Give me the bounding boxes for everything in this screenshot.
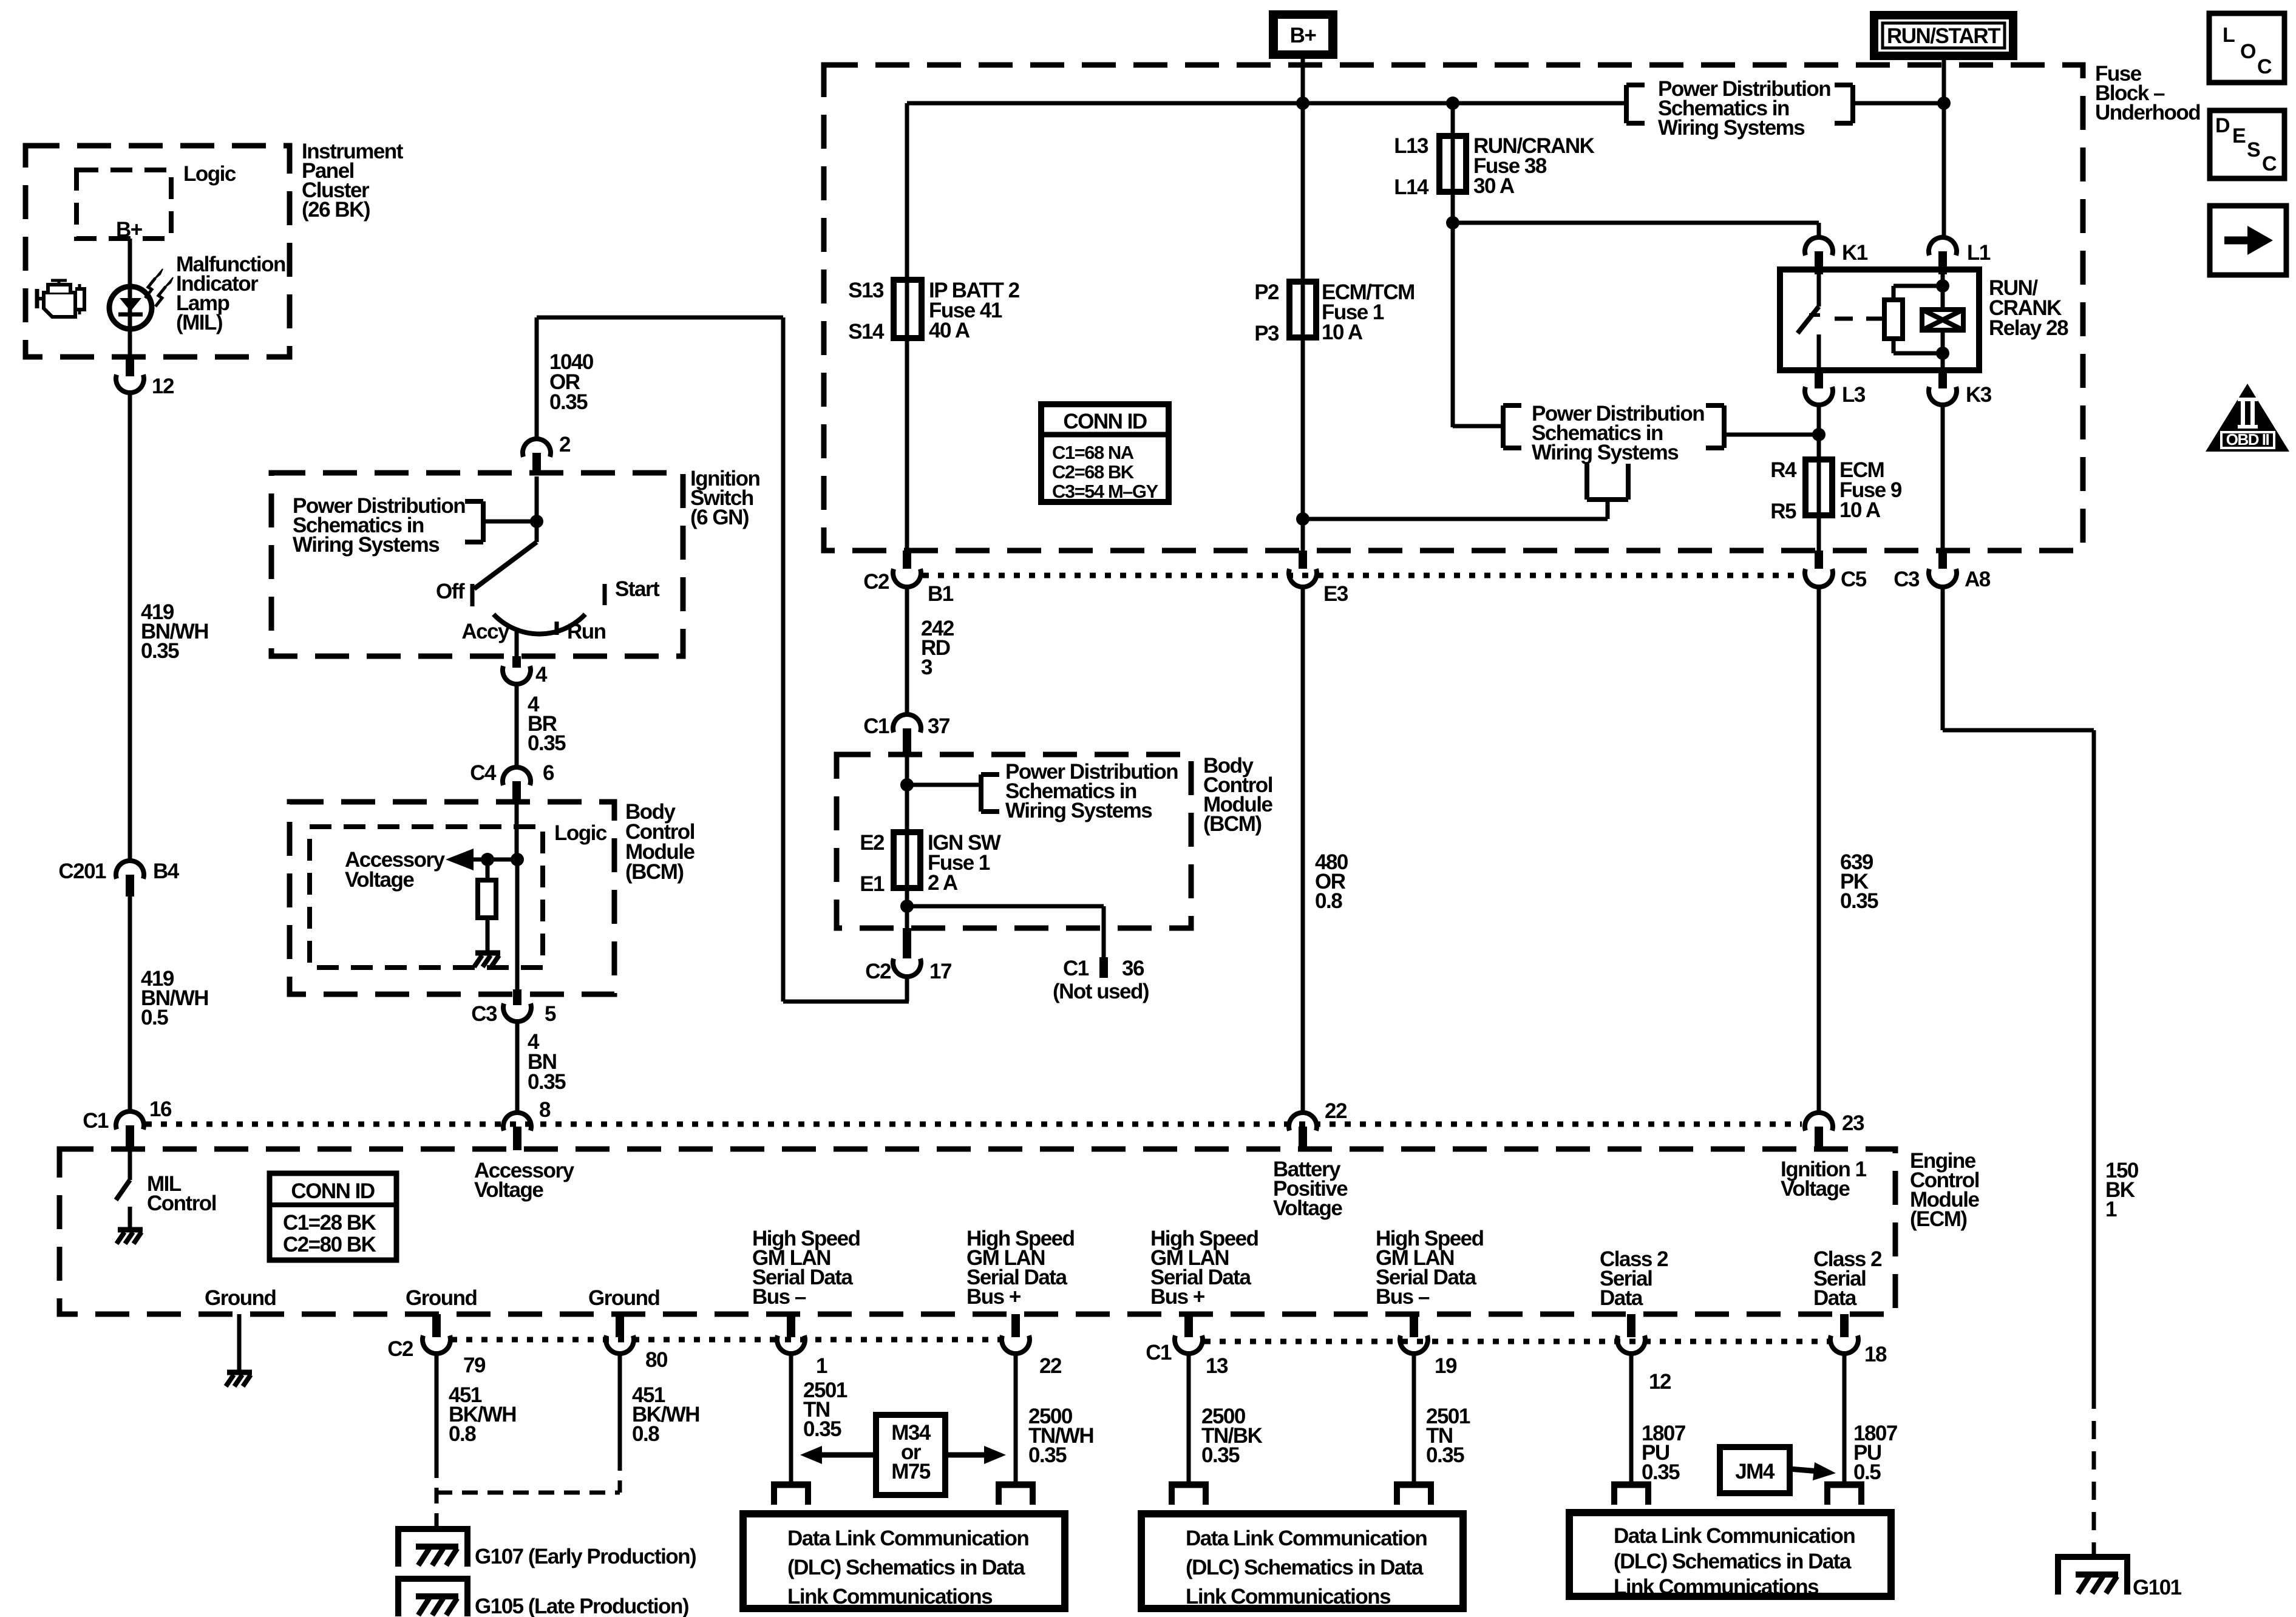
svg-text:B+: B+ [1290,24,1317,47]
svg-text:1: 1 [2105,1198,2117,1221]
wire L3 to fuse 9 [1817,404,1821,554]
svg-text:Accy: Accy [461,620,510,643]
connector pin 12 (Class 2) [1617,1314,1671,1394]
symbol LOC box [2209,13,2284,83]
wire pin 6 into BCM [515,802,519,859]
data link communication box 2 [1141,1514,1463,1609]
svg-text:12: 12 [152,375,174,398]
svg-text:C: C [2257,55,2272,78]
fuse 38 RUN/CRANK 30A [1394,134,1594,199]
wire B+ feed [1301,59,1305,103]
wire bracket to RUN/START feed [1853,101,1944,106]
svg-text:(DLC) Schematics in Data: (DLC) Schematics in Data [787,1556,1025,1579]
splice M34 or M75 [876,1415,945,1495]
ignition switch blade [474,476,537,589]
svg-text:B+: B+ [116,218,143,242]
svg-text:Control: Control [147,1192,216,1215]
svg-text:L3: L3 [1842,383,1866,407]
junction node (B+ branch) [1296,512,1309,526]
wire to callout (BCM) [907,783,981,787]
junction node (B+ bus) [1296,97,1309,110]
junction node (coil top) [1936,279,1949,293]
ground (BCM logic) [486,943,490,951]
svg-text:(ECM): (ECM) [1910,1207,1967,1231]
pin C1 36 not used [1053,957,1149,1003]
svg-text:S: S [2247,138,2260,161]
svg-text:JM4: JM4 [1735,1460,1775,1483]
svg-text:40 A: 40 A [929,319,970,342]
wire pin 6 to C3-5 [515,859,520,991]
wire 2501 TN 0.35 (pin 1) [789,1353,793,1482]
ignition rotary arc [494,614,585,634]
svg-text:Ground: Ground [588,1286,659,1310]
junction node (arrow) [481,853,494,866]
callout bracket left (top) [1626,85,1645,123]
svg-text:K1: K1 [1842,241,1868,265]
data link communication box 1 [743,1514,1065,1609]
connector C1 pin 37 (BCM) [863,714,949,757]
svg-text:3: 3 [921,656,932,679]
arrow M34 to pin-1 wire [800,1446,876,1464]
connector pin 2 (ignition switch) [523,433,571,474]
svg-text:16: 16 [149,1097,172,1121]
wire 2501 TN 0.35 (pin 19) [1412,1353,1416,1482]
svg-text:Logic: Logic [554,821,607,845]
svg-text:G105 (Late Production): G105 (Late Production) [475,1595,688,1617]
wire 419 BN/WH 0.5 [128,897,132,1111]
wire 2500 TN/WH 0.35 (pin 22) [1014,1353,1018,1482]
svg-text:C1: C1 [83,1109,109,1133]
svg-text:C4: C4 [470,761,497,785]
connector pin 13 (GM LAN +) [1146,1314,1228,1378]
connector C2 pin B1 (fuse block) [863,551,954,606]
relay RUN/CRANK Relay 28 box [1780,269,1979,370]
engine icon (MIL pictogram) [37,280,84,317]
svg-text:37: 37 [928,714,949,738]
junction node (coil bottom) [1936,347,1949,360]
svg-text:L14: L14 [1394,175,1429,199]
svg-text:10 A: 10 A [1322,320,1363,344]
svg-text:2 A: 2 A [928,871,958,895]
callout U-bracket (mid) [1587,464,1628,500]
ECM CONN ID table [270,1173,396,1260]
svg-text:OBD II: OBD II [2226,430,2269,449]
svg-text:E1: E1 [860,872,885,896]
svg-text:C1=28 BK: C1=28 BK [283,1211,376,1235]
connector pin 8 (ECM) [503,1098,551,1150]
ECM connector line C1/C2 (top dotted) [146,1122,1802,1127]
terminal fork (pin 22) [996,1482,1036,1488]
svg-text:S14: S14 [848,320,885,344]
svg-text:Data: Data [1813,1286,1857,1310]
svg-text:36: 36 [1122,957,1144,980]
svg-text:0.35: 0.35 [1642,1460,1680,1484]
terminal fork (pin 18) [1824,1482,1864,1488]
instrument panel cluster box [25,146,290,357]
svg-text:B1: B1 [928,582,954,606]
svg-text:18: 18 [1864,1343,1887,1366]
symbol B+ [1269,10,1337,59]
fuse IP BATT 2 40A [848,279,1019,344]
svg-text:Data Link Communication: Data Link Communication [1186,1527,1427,1550]
svg-text:E: E [2232,124,2246,147]
svg-text:C5: C5 [1841,568,1867,591]
wire 1807 PU 0.5 (pin 18) [1843,1353,1847,1482]
svg-text:0.35: 0.35 [803,1417,841,1441]
symbol DESC box [2210,110,2284,178]
wire ECM ground 1 [237,1314,242,1371]
svg-text:Wiring Systems: Wiring Systems [293,533,440,557]
wire to G107 (dashed) [435,1462,439,1528]
connector C2 pin 17 (BCM) [865,928,951,983]
svg-text:C1=68 NA: C1=68 NA [1052,442,1134,463]
svg-text:K3: K3 [1966,383,1992,407]
svg-text:A8: A8 [1965,568,1991,591]
svg-text:C2: C2 [865,960,891,983]
symbol RUN/START [1870,11,2017,60]
connector C2 pin 80 [606,1314,668,1372]
svg-text:80: 80 [645,1348,668,1372]
svg-text:10 A: 10 A [1839,498,1881,522]
ignition Off terminal [436,580,472,606]
body control module box (IGN SW) [837,754,1191,928]
svg-text:Off: Off [436,580,465,603]
svg-text:Underhood: Underhood [2095,101,2200,124]
svg-text:Voltage: Voltage [1273,1196,1342,1220]
svg-text:Bus –: Bus – [1376,1285,1430,1309]
svg-text:(MIL): (MIL) [176,311,222,334]
svg-text:C2: C2 [863,570,889,594]
svg-text:(Not used): (Not used) [1053,980,1149,1003]
wire 639 PK 0.35 [1817,586,1821,1113]
wire 451 BK/WH 0.8 (pin 80) [618,1353,622,1455]
wire 1040 OR 0.35 (riser from BCM C2-17) [537,317,909,1002]
junction node (BCM feed) [900,778,914,792]
svg-text:6: 6 [543,761,554,785]
ground G (ECM case) [237,1363,242,1371]
svg-text:23: 23 [1842,1111,1864,1135]
connector C3 pin 5 (BCM) [471,989,556,1026]
MIL LED lamp [109,286,152,329]
callout bracket left (mid) [1503,405,1521,448]
CONN ID table (fuse block) [1041,404,1169,502]
symbol OBD II [2206,384,2289,452]
svg-text:C3: C3 [1894,568,1920,591]
ignition Run terminal [557,620,606,643]
svg-text:8: 8 [539,1098,551,1122]
svg-text:C3=54 M–GY: C3=54 M–GY [1052,481,1159,502]
MIL control switch [116,1149,130,1220]
wire 242 RD 3 [905,586,909,715]
connector pin 12 (cluster) [116,357,174,398]
wire callout to switch [483,520,537,524]
LED flash arrows [145,269,173,307]
svg-text:C3: C3 [471,1002,497,1026]
svg-text:Wiring Systems: Wiring Systems [1658,116,1805,140]
junction node (fuse 38 out) [1446,216,1459,229]
svg-text:Voltage: Voltage [1781,1177,1850,1201]
relay actuator link (dashed) [1835,317,1884,321]
connector pin 23 (ECM) [1805,1111,1864,1150]
svg-text:L13: L13 [1394,134,1428,158]
wire 480 OR 0.8 [1301,586,1305,1113]
svg-text:Ground: Ground [406,1286,477,1310]
svg-text:R5: R5 [1770,500,1796,523]
svg-text:0.35: 0.35 [1028,1443,1067,1467]
data link communication box 3 [1569,1513,1891,1599]
wire down to connector 2 [535,317,539,439]
symbol arrow box [2210,206,2286,275]
connector pin 18 (Class 2) [1830,1314,1887,1366]
svg-text:Start: Start [615,577,660,601]
svg-text:Wiring Systems: Wiring Systems [1532,441,1679,464]
ground G101 [2058,1557,2182,1599]
svg-text:0.35: 0.35 [528,1070,566,1094]
svg-text:22: 22 [1325,1099,1347,1123]
svg-text:C1: C1 [1063,957,1089,980]
fuse block connector line (dotted) [923,573,1798,578]
wire 419 BN/WH 0.35 [128,392,132,861]
ground (MIL control) [128,1220,132,1228]
connector pin K3 (relay) [1929,370,1992,407]
svg-text:0.35: 0.35 [1840,889,1878,913]
svg-text:Data Link Communication: Data Link Communication [1614,1524,1855,1548]
svg-text:Bus +: Bus + [966,1285,1021,1309]
svg-text:C2=80 BK: C2=80 BK [283,1233,376,1256]
svg-text:79: 79 [463,1354,486,1377]
BCM logic box [310,827,543,968]
wire fuse 38 feed [1451,103,1455,427]
ignition Start terminal [605,577,660,605]
terminal fork (pin 12) [1611,1482,1651,1488]
body control module box (logic) [290,802,614,994]
callout bracket (BCM) [981,775,999,812]
wire 2500 TN/BK 0.35 (pin 13) [1187,1353,1191,1482]
connector pin E3 (fuse block) [1289,551,1348,606]
svg-text:P2: P2 [1254,280,1279,304]
svg-text:4: 4 [535,663,548,686]
wire 4 BN 0.35 [515,1021,520,1113]
svg-text:0.5: 0.5 [141,1006,168,1029]
svg-text:Bus –: Bus – [752,1285,806,1309]
svg-text:L1: L1 [1967,241,1991,265]
svg-text:0.35: 0.35 [528,731,566,755]
svg-text:Link Communications: Link Communications [787,1585,993,1609]
wire 150 BK 1 (A8 to G101) [1943,586,2094,1391]
wire K3 to A8 [1941,404,1945,552]
svg-text:C2: C2 [387,1337,413,1361]
ECM connector line C1 (bottom dotted) [1204,1339,1830,1344]
svg-text:O: O [2240,40,2256,63]
svg-text:RUN/START: RUN/START [1887,24,2000,48]
connector C2 pin 79 [387,1314,486,1377]
svg-text:Link Communications: Link Communications [1614,1575,1819,1599]
connector pin 19 (GM LAN -) [1400,1314,1457,1378]
svg-text:0.5: 0.5 [1853,1460,1881,1484]
svg-text:22: 22 [1039,1354,1062,1378]
wire 1807 PU 0.35 (pin 12) [1629,1353,1634,1482]
wire B+ to MIL lamp [128,239,132,287]
junction node (main) [511,853,524,866]
junction node (fuse 38 tap) [1446,97,1459,110]
svg-text:Wiring Systems: Wiring Systems [1005,799,1152,822]
terminal fork (pin 13) [1169,1482,1209,1488]
connector pin 22 (GM LAN +) [1002,1314,1062,1378]
terminal fork (pin 1) [771,1482,811,1488]
fuse block underhood box [824,65,2083,551]
svg-text:Data Link Communication: Data Link Communication [787,1527,1028,1550]
relay coil [1922,273,1963,371]
wire fuse 38 to relay K1 [1453,223,1819,238]
resistor (BCM pull) [478,859,496,943]
svg-text:M75: M75 [891,1460,931,1483]
svg-text:17: 17 [929,960,951,983]
ground G107 [398,1529,696,1568]
svg-text:13: 13 [1206,1354,1228,1378]
svg-text:(BCM): (BCM) [625,860,684,884]
wire to pin 36 [907,906,1104,957]
bus wire B+ distribution [907,101,1626,106]
svg-text:C201: C201 [58,859,106,883]
connector C4 pin 6 (BCM) [470,761,554,802]
svg-text:0.35: 0.35 [141,639,179,663]
connector pin 1 (GM LAN -) [777,1314,827,1378]
wire 4 BR 0.35 [515,684,519,767]
svg-text:C: C [2262,152,2277,175]
svg-text:CONN ID: CONN ID [291,1179,375,1203]
svg-text:Link Communications: Link Communications [1186,1585,1391,1609]
svg-text:0.35: 0.35 [1201,1443,1240,1467]
svg-text:E3: E3 [1323,582,1348,606]
label Ground x3 [205,1286,659,1310]
wire pin 17 to riser [905,977,909,1002]
connector C1 pin 16 (ECM) [83,1097,172,1150]
connector pin A8 (fuse block) [1894,551,1991,591]
svg-text:L: L [2223,24,2235,47]
svg-text:19: 19 [1435,1354,1457,1378]
junction node (relay output) [1812,428,1826,441]
junction node (ignition feed) [530,515,543,528]
svg-text:2: 2 [559,433,571,456]
wire fuse38 to callout [1453,424,1503,429]
svg-text:C1: C1 [863,714,889,738]
svg-text:(DLC) Schematics in Data: (DLC) Schematics in Data [1186,1556,1424,1579]
svg-text:0.8: 0.8 [1315,889,1342,913]
svg-text:CONN ID: CONN ID [1063,410,1147,433]
svg-text:Relay 28: Relay 28 [1989,316,2068,340]
wire 451 BK/WH 0.8 (pin 79) [435,1353,439,1462]
connector pin L3 (relay) [1805,370,1866,407]
junction node (IGN SW out) [900,900,914,913]
ECM connector line C2 (bottom dotted) [451,1337,1001,1343]
arrow M34 to pin-22 wire [945,1446,1006,1464]
svg-text:(6 GN): (6 GN) [690,506,749,529]
svg-text:G101: G101 [2133,1576,2182,1599]
connector pin 22 (ECM) [1289,1099,1347,1150]
svg-text:P3: P3 [1254,322,1279,345]
svg-text:R4: R4 [1770,458,1797,482]
svg-text:(26 BK): (26 BK) [302,198,370,222]
fuse IGN SW 2A [860,831,1001,896]
svg-text:Data: Data [1600,1286,1643,1310]
svg-text:(DLC) Schematics in Data: (DLC) Schematics in Data [1614,1550,1852,1573]
junction node (RUN/START) [1937,97,1951,110]
svg-text:0.35: 0.35 [1426,1443,1464,1467]
callout bracket (ignition) [465,501,483,542]
svg-text:B4: B4 [153,859,180,883]
svg-text:Bus +: Bus + [1150,1285,1205,1309]
wire ECM/TCM fuse feed [1301,103,1305,554]
relay coil parallel rails [1894,286,1943,353]
arrow JM4 to pin-18 wire [1790,1462,1836,1480]
svg-text:E2: E2 [860,831,885,855]
terminal fork (pin 19) [1394,1482,1434,1488]
connector C201 pin B4 [58,859,179,897]
svg-text:0.35: 0.35 [549,390,588,414]
svg-text:12: 12 [1649,1370,1671,1394]
svg-text:C1: C1 [1146,1341,1172,1364]
svg-text:S13: S13 [848,279,884,302]
svg-text:Logic: Logic [183,162,236,186]
splice JM4 [1720,1447,1790,1493]
connector pin C5 (fuse block) [1805,551,1867,591]
svg-text:C2=68 BK: C2=68 BK [1052,461,1135,483]
accessory voltage arrow [446,849,517,870]
fuse ECM Fuse 9 10A [1770,458,1902,523]
callout bracket right (top) [1835,85,1853,123]
relay coil resistor [1884,286,1903,353]
wire MIL lamp to cluster edge [128,329,132,358]
wire callout to B+ branch [1303,500,1608,519]
wire RUN/START feed [1942,60,1946,238]
connector pin L1 (relay) [1929,237,1991,274]
wire 150 BK 1 dashed to G101 [2092,1391,2096,1557]
connector pin K1 (relay) [1805,237,1868,274]
svg-text:5: 5 [545,1002,556,1026]
svg-text:0.8: 0.8 [449,1422,476,1446]
fuse ECM/TCM 10A [1254,280,1415,345]
svg-text:D: D [2215,114,2230,137]
wire callout to relay output [1724,433,1819,437]
svg-text:(BCM): (BCM) [1203,812,1262,836]
relay switch [1798,273,1820,371]
svg-text:30 A: 30 A [1473,174,1515,198]
engine control module (ECM) box [59,1149,1895,1314]
svg-text:G107 (Early Production): G107 (Early Production) [475,1545,696,1568]
ignition switch box [271,473,683,656]
svg-text:Ground: Ground [205,1286,276,1310]
connector pin 4 (ignition switch) [503,656,548,686]
svg-text:Voltage: Voltage [345,868,414,892]
svg-text:Run: Run [567,620,606,643]
svg-text:Voltage: Voltage [474,1178,543,1202]
ground G105 [398,1579,688,1617]
wire Accy to pin 4 [515,630,519,657]
cluster logic box [76,170,171,239]
wire splice dashed to pin 80 [436,1455,620,1493]
wire IP BATT 2 fuse feed [905,103,909,554]
callout bracket right (mid) [1706,405,1724,448]
svg-text:0.8: 0.8 [632,1422,659,1446]
svg-text:1: 1 [816,1354,827,1378]
wire pin 37 into BCM [905,757,909,931]
